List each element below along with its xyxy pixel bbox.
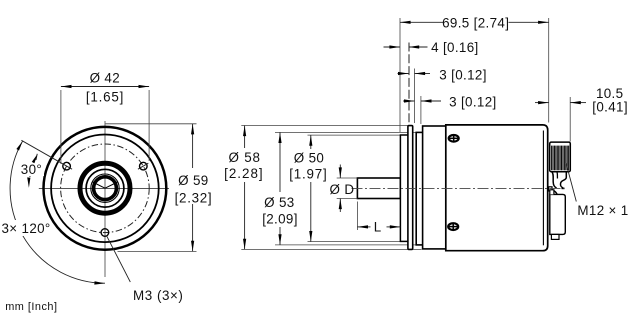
screw hole upper-left (150deg)	[63, 162, 71, 170]
svg-text:[1.97]: [1.97]	[289, 167, 327, 182]
M12 thread block	[550, 142, 571, 172]
lower block	[550, 194, 566, 234]
radial line through upper-left hole extended (for 30deg dim)	[21, 140, 72, 169]
bolt circle Ø42 (dash-dot)	[61, 144, 150, 233]
dimension 4 [0.16]	[384, 46, 401, 48]
svg-text:4 [0.16]: 4 [0.16]	[431, 40, 478, 55]
svg-text:mm [Inch]: mm [Inch]	[5, 301, 57, 313]
dimension Ø59: dimension line with arrows	[192, 124, 194, 168]
shaft	[357, 178, 400, 199]
dashed mounting-face line	[408, 43, 410, 126]
dimension ØD: extension lines	[337, 177, 358, 179]
svg-text:[2.09]: [2.09]	[262, 212, 298, 227]
screw hole upper-right (30deg)	[140, 162, 148, 170]
svg-text:Ø 53: Ø 53	[264, 195, 294, 210]
svg-text:Ø 50: Ø 50	[294, 151, 324, 166]
screw hole bottom (270deg)	[101, 229, 109, 237]
screw top	[449, 135, 459, 142]
svg-text:3 [0.12]: 3 [0.12]	[449, 95, 496, 110]
svg-text:Ø 59: Ø 59	[178, 173, 208, 188]
svg-text:[2.28]: [2.28]	[224, 166, 264, 181]
dimension Ø53: dimension line	[279, 132, 281, 192]
pilot boss plate Ø50	[400, 135, 408, 241]
dimension L: extension line	[356, 202, 358, 231]
svg-text:Ø D: Ø D	[330, 182, 355, 197]
svg-text:3× 120°: 3× 120°	[2, 221, 51, 236]
collar circle Ø53	[51, 135, 159, 243]
svg-text:[1.65]: [1.65]	[86, 90, 124, 105]
radial tick upper-right hole	[138, 163, 148, 169]
120deg arc	[10, 141, 105, 284]
dimension 3 [0.12] lower	[420, 96, 422, 124]
end cap seam	[542, 131, 544, 246]
svg-text:[0.41]: [0.41]	[592, 99, 628, 114]
tiny center mark	[562, 187, 565, 189]
vertical centerline	[104, 121, 106, 277]
30deg arrows	[32, 154, 38, 164]
connector neck left curve	[552, 172, 557, 188]
svg-text:69.5 [2.74]: 69.5 [2.74]	[442, 15, 509, 30]
neck bottom curve	[552, 190, 557, 195]
outer housing circle Ø59	[44, 127, 167, 250]
dimension Ø59: extension lines	[105, 123, 196, 125]
dimension 69.5: extension lines	[399, 18, 401, 132]
lower block nub	[550, 190, 554, 195]
center V marks	[93, 182, 105, 188]
collar ring Ø53	[416, 132, 423, 245]
screw bottom	[448, 223, 458, 230]
dimension Ø42: extension lines	[60, 90, 62, 164]
thread hatch lines	[552, 146, 569, 171]
body front ring Ø58	[423, 126, 446, 249]
svg-text:Ø 58: Ø 58	[228, 150, 260, 165]
svg-text:[2.32]: [2.32]	[175, 190, 213, 205]
svg-text:30°: 30°	[21, 162, 42, 177]
dimension Ø53: extension lines	[275, 131, 417, 133]
svg-text:L: L	[374, 220, 382, 235]
dimension 10.5: extension line	[569, 97, 571, 142]
middle ring	[86, 169, 124, 207]
dimension Ø58: dimension line	[244, 126, 246, 149]
dimension 3 [0.12] upper	[414, 69, 416, 124]
svg-text:M12 × 1: M12 × 1	[577, 203, 628, 218]
dimension ØD: arrows outside	[339, 165, 341, 179]
flange plate Ø58	[408, 126, 413, 250]
lower block foot	[551, 234, 559, 239]
svg-text:3 [0.12]: 3 [0.12]	[439, 67, 486, 82]
dimension Ø58: extension lines	[241, 125, 407, 127]
dimension L: dimension line with inside arrows	[357, 226, 370, 228]
dimension 10.5: arrows outside	[535, 102, 549, 104]
shaft hub thin ring	[91, 174, 119, 202]
leader M3	[107, 236, 131, 282]
svg-text:M3 (3×): M3 (3×)	[133, 288, 183, 303]
shaft collar thick ring	[94, 177, 117, 200]
dimension Ø42: dimension line with inside arrows	[61, 86, 149, 88]
leader M12	[566, 163, 576, 202]
clamping ring (thick)	[80, 163, 130, 213]
neck small box at centerline	[549, 187, 552, 191]
dimension 69.5: dimension line	[400, 21, 443, 23]
dimension Ø50: dimension line	[310, 135, 312, 149]
side view centerline (dash-dot)	[352, 187, 564, 189]
120deg arrows	[16, 141, 22, 150]
dimension Ø50: extension lines	[308, 134, 401, 136]
30deg angular dimension arc	[30, 154, 38, 177]
svg-text:Ø 42: Ø 42	[90, 70, 120, 85]
horizontal centerline	[39, 188, 169, 190]
main body Ø59	[446, 125, 548, 251]
connector neck right curve	[560, 172, 566, 188]
